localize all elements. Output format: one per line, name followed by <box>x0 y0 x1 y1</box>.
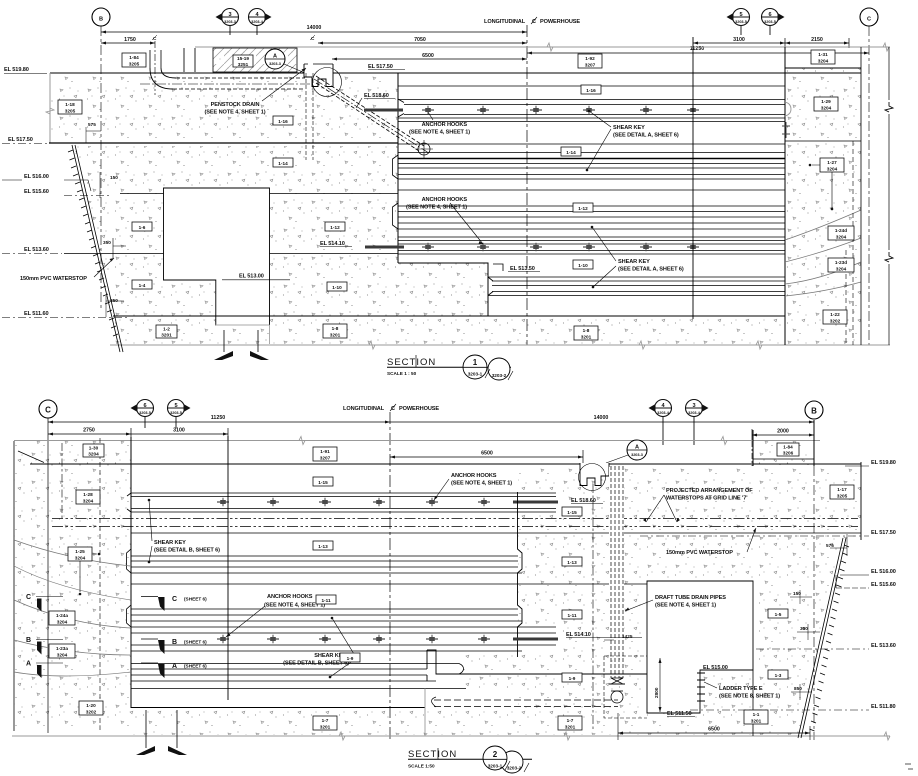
pour box 1-1/3201 <box>744 710 768 724</box>
svg-text:3203-2: 3203-2 <box>507 766 522 771</box>
svg-text:3201: 3201 <box>751 719 762 724</box>
svg-text:3204: 3204 <box>88 452 99 457</box>
detail circle around niche <box>313 68 342 97</box>
turbine pit white void <box>164 188 270 325</box>
svg-text:3201: 3201 <box>161 333 172 338</box>
svg-text:(SEE NOTE 4, SHEET 1): (SEE NOTE 4, SHEET 1) <box>205 110 266 116</box>
svg-text:1-30: 1-30 <box>89 446 99 451</box>
svg-text:5: 5 <box>739 12 742 18</box>
svg-text:1-14: 1-14 <box>278 161 288 166</box>
pour box 1-84/3206 <box>777 443 799 456</box>
pour box 1-11 center <box>316 595 336 604</box>
slab band right edge with keyways <box>518 492 523 657</box>
anchor hooks row b1 <box>217 498 229 506</box>
longitudinal centerline 2 <box>389 412 391 740</box>
grid bubble 6 <box>762 9 785 26</box>
pour box 1-13 right <box>562 557 582 566</box>
svg-text:ANCHOR HOOKS: ANCHOR HOOKS <box>267 594 313 600</box>
svg-text:EL 518.60: EL 518.60 <box>364 93 389 99</box>
section 2 bubble <box>501 751 523 773</box>
svg-text:EL 517.50: EL 517.50 <box>8 137 33 143</box>
svg-text:7050: 7050 <box>414 37 426 43</box>
pour box 1-2/3201 <box>156 325 177 338</box>
pour box 1-5 <box>768 609 788 618</box>
svg-text:3207: 3207 <box>585 63 596 68</box>
svg-text:SHEAR KEY: SHEAR KEY <box>613 125 645 131</box>
svg-text:1-92: 1-92 <box>585 56 595 61</box>
svg-text:3205: 3205 <box>65 109 76 114</box>
svg-text:350: 350 <box>103 240 111 245</box>
svg-text:(SHEET 6): (SHEET 6) <box>184 597 207 602</box>
svg-text:3205: 3205 <box>129 62 140 67</box>
joint line EL515.60 b <box>131 583 647 585</box>
svg-text:3204: 3204 <box>57 653 68 658</box>
pour box 1-22/3202 <box>823 310 847 324</box>
svg-text:SECTION: SECTION <box>408 749 457 760</box>
svg-text:EL 513.50: EL 513.50 <box>510 266 535 272</box>
slope hatch ticks 2 <box>810 545 850 731</box>
bottom 6500 dim <box>618 732 810 734</box>
svg-text:C: C <box>45 406 51 415</box>
pour box 1-30/3204 <box>83 444 104 457</box>
grid bubble 3 <box>216 9 239 26</box>
upper lift joint <box>398 85 785 87</box>
pipe end circle <box>418 143 430 155</box>
svg-text:3: 3 <box>228 12 231 18</box>
svg-text:1-6: 1-6 <box>139 225 146 230</box>
svg-text:1-23d: 1-23d <box>835 260 847 265</box>
svg-text:1-16: 1-16 <box>586 88 596 93</box>
band E lift joint lines <box>488 277 785 296</box>
dimension 11250 b <box>48 421 390 423</box>
2800 dim <box>659 658 661 712</box>
svg-text:1-13: 1-13 <box>318 544 328 549</box>
svg-text:LONGITUDINAL: LONGITUDINAL <box>484 19 526 25</box>
svg-text:A: A <box>635 445 639 451</box>
svg-text:350: 350 <box>800 626 808 631</box>
svg-text:SCALE 1:50: SCALE 1:50 <box>408 764 435 769</box>
excavation slope line <box>72 145 123 352</box>
svg-text:PENSTOCK DRAIN: PENSTOCK DRAIN <box>211 102 260 108</box>
leader A to niche <box>284 64 305 73</box>
cut mark arrows <box>214 351 233 360</box>
draft tube drain pipes dashed <box>611 466 623 678</box>
pour box 1-16 center <box>581 85 601 94</box>
svg-text:1-14: 1-14 <box>566 150 576 155</box>
svg-text:(SEE DETAIL B, SHEET 6): (SEE DETAIL B, SHEET 6) <box>154 548 220 554</box>
A row right keyway bump <box>459 664 464 675</box>
band5 joint lines A row <box>131 664 459 682</box>
svg-text:1425: 1425 <box>622 634 633 639</box>
grid bubble 3b <box>686 400 709 417</box>
concrete stipple right block <box>785 68 861 345</box>
main concrete top line EL519.60 <box>50 72 861 74</box>
grid bubble 4b <box>649 400 672 417</box>
svg-text:575: 575 <box>88 122 96 127</box>
svg-text:ANCHOR HOOKS: ANCHOR HOOKS <box>422 197 468 203</box>
svg-text:1-91: 1-91 <box>320 449 330 454</box>
svg-text:B: B <box>811 407 817 416</box>
band A lift joint lines <box>398 100 785 119</box>
right concrete stipple block <box>518 466 861 735</box>
svg-text:WATERSTOPS AT GRID LINE '7': WATERSTOPS AT GRID LINE '7' <box>666 496 748 502</box>
grid line C <box>868 26 870 345</box>
pour box 1-17/3205 <box>830 485 854 499</box>
svg-text:ANCHOR HOOKS: ANCHOR HOOKS <box>422 122 468 128</box>
svg-text:3207: 3207 <box>320 456 331 461</box>
bottom slab line 2 <box>131 707 425 709</box>
unit grid line 7 <box>592 484 594 730</box>
svg-text:SCALE 1 : 50: SCALE 1 : 50 <box>387 371 417 376</box>
svg-text:EL 519.80: EL 519.80 <box>4 67 29 73</box>
pour box 1-84/3205 <box>122 53 146 67</box>
dashed enclosure <box>604 656 647 718</box>
dimension tier1 14000 <box>101 31 527 33</box>
right block top line <box>785 67 861 69</box>
svg-text:1750: 1750 <box>124 37 136 43</box>
grid bubble B <box>92 8 110 26</box>
svg-text:1-1: 1-1 <box>753 712 760 717</box>
svg-text:14000: 14000 <box>307 25 322 31</box>
pour box 1-23d/3204 <box>828 258 854 272</box>
dimension 3100 b <box>131 433 228 435</box>
C sheet6 row <box>141 596 158 598</box>
svg-text:C: C <box>867 17 871 23</box>
svg-text:1-3: 1-3 <box>775 673 782 678</box>
band3 joint lines C row <box>131 609 522 621</box>
leader 1-25 <box>80 554 97 592</box>
stems 5/6 <box>145 417 176 429</box>
svg-text:1-24d: 1-24d <box>835 228 847 233</box>
svg-text:1-11: 1-11 <box>567 613 577 618</box>
stems 3/4 <box>663 417 694 446</box>
svg-text:3203-5: 3203-5 <box>170 411 182 415</box>
cut stems 2 <box>146 710 177 748</box>
svg-text:3204: 3204 <box>75 556 86 561</box>
pour box 1-16 left <box>273 116 293 125</box>
niche detail 2 <box>580 463 609 486</box>
joint line low <box>131 688 466 690</box>
anchor hooks row b2 <box>217 635 229 643</box>
svg-text:1-13: 1-13 <box>567 560 577 565</box>
right edge line with breaks <box>860 47 862 345</box>
lift joint EL517.50 <box>398 143 785 145</box>
svg-text:(SHEET 6): (SHEET 6) <box>184 640 207 645</box>
svg-text:EL 514.10: EL 514.10 <box>566 632 591 638</box>
bottom stipple strip <box>131 708 640 735</box>
svg-text:2: 2 <box>493 750 498 759</box>
svg-text:1-12: 1-12 <box>578 206 588 211</box>
sloped line top-left 2 <box>18 451 44 463</box>
svg-text:1-29: 1-29 <box>821 99 831 104</box>
pour box 1-10 left <box>327 282 347 291</box>
svg-text:B: B <box>26 637 31 644</box>
ground line bottom <box>110 344 890 346</box>
anchor hooks row 2 <box>422 243 434 251</box>
grid bubble 3/4 stems <box>230 26 257 36</box>
left face of concrete <box>49 73 51 143</box>
band C lift joint lines <box>398 206 785 229</box>
svg-text:575: 575 <box>826 543 834 548</box>
niche detail at unit CL <box>304 64 333 87</box>
pour box 1-9 right <box>562 673 582 682</box>
svg-text:EL 517.50: EL 517.50 <box>871 530 896 536</box>
longitudinal centerline <box>526 25 528 345</box>
lift joint EL515.60 segments <box>120 193 398 195</box>
svg-text:EL 513.00: EL 513.00 <box>239 274 264 280</box>
svg-text:1-10: 1-10 <box>332 285 342 290</box>
svg-text:3201: 3201 <box>565 725 576 730</box>
svg-text:EL 516.00: EL 516.00 <box>24 174 49 180</box>
pour box 1-14 center <box>561 147 581 156</box>
section 1 bubble <box>488 358 510 380</box>
svg-text:DRAFT TUBE DRAIN PIPES: DRAFT TUBE DRAIN PIPES <box>655 595 726 601</box>
B sheet6 row <box>141 638 158 640</box>
pedestal bottom gray <box>216 325 270 344</box>
leader A2 <box>606 455 628 463</box>
right block inner dashed lines <box>846 141 853 345</box>
svg-text:3206: 3206 <box>783 451 794 456</box>
band A edge flare <box>398 99 404 117</box>
svg-text:3203-1: 3203-1 <box>468 372 483 377</box>
pour box 1-27/3204 <box>820 158 844 172</box>
grid bubble C <box>860 8 878 26</box>
band2 joint lines <box>131 556 522 573</box>
svg-text:3204: 3204 <box>836 235 847 240</box>
grid bubble B2 <box>805 401 823 419</box>
draft tube floor <box>427 650 647 674</box>
svg-text:1-12: 1-12 <box>330 225 340 230</box>
svg-text:850: 850 <box>794 686 802 691</box>
svg-text:2000: 2000 <box>777 429 789 435</box>
svg-text:(SHEET 6): (SHEET 6) <box>184 664 207 669</box>
pour box 1-12 left <box>325 222 345 231</box>
dimension 6500 <box>332 58 527 60</box>
left concrete stipple block <box>14 441 131 731</box>
1-84 strip verticals <box>752 430 754 466</box>
svg-text:A: A <box>26 661 31 668</box>
svg-text:3203-5: 3203-5 <box>735 20 747 24</box>
svg-text:3203-5: 3203-5 <box>764 20 776 24</box>
svg-text:1-7: 1-7 <box>322 718 329 723</box>
pour box 1-9 center <box>340 653 360 662</box>
excavation slope line 2 <box>798 538 846 738</box>
slab stack left face <box>397 73 399 263</box>
svg-text:SHEAR KEY: SHEAR KEY <box>618 259 650 265</box>
svg-text:3204: 3204 <box>83 499 94 504</box>
svg-text:850: 850 <box>110 298 118 303</box>
svg-text:3203-3: 3203-3 <box>269 62 281 66</box>
left block outline top <box>13 441 15 731</box>
svg-text:3202: 3202 <box>86 710 97 715</box>
drain pipe channel white <box>609 467 624 655</box>
turbine pit outline <box>164 188 270 325</box>
penstock drain pipe vertical <box>150 50 161 68</box>
svg-text:1-20: 1-20 <box>86 703 96 708</box>
svg-text:3201: 3201 <box>330 333 341 338</box>
band4 joint lines B row <box>131 627 556 651</box>
svg-text:1-31: 1-31 <box>818 52 828 57</box>
svg-text:1-17: 1-17 <box>837 487 847 492</box>
pour box 1-20/3202 <box>79 701 103 715</box>
svg-text:SHEAR KEY: SHEAR KEY <box>154 540 186 546</box>
svg-text:1: 1 <box>473 358 478 367</box>
top slab line <box>30 463 861 465</box>
svg-text:1-25: 1-25 <box>75 549 85 554</box>
band B lift joint lines <box>398 153 785 180</box>
pour box 1-18/3205 <box>58 100 82 114</box>
band1 joint lines <box>131 493 556 512</box>
dimension 6500 b <box>390 456 583 458</box>
svg-text:1-4: 1-4 <box>139 283 146 288</box>
bottom slab line <box>113 315 785 317</box>
pour box 1-28/3204 <box>76 490 100 504</box>
svg-text:15-19: 15-19 <box>237 56 249 61</box>
svg-text:B: B <box>99 17 103 23</box>
svg-text:PROJECTED ARRANGEMENT OF: PROJECTED ARRANGEMENT OF <box>666 488 753 494</box>
svg-text:11250: 11250 <box>211 415 225 421</box>
svg-text:1-84: 1-84 <box>129 55 139 60</box>
svg-text:5: 5 <box>174 403 177 409</box>
slab band area white <box>131 466 518 708</box>
grid bubble 5/6 stems <box>741 26 770 36</box>
grid bubble 5b <box>168 400 191 417</box>
grid bubble C2 <box>39 400 57 418</box>
anchor bar b1 <box>513 501 558 504</box>
svg-text:(SEE NOTE 4, SHEET 1): (SEE NOTE 4, SHEET 1) <box>409 130 470 136</box>
label box 15-19/3251 <box>233 55 253 67</box>
pour box 1-25/3204 <box>68 547 92 561</box>
svg-text:1-24a: 1-24a <box>56 613 68 618</box>
A sheet6 row <box>141 662 158 664</box>
joint below band A <box>398 121 785 123</box>
svg-text:2750: 2750 <box>83 428 95 434</box>
svg-text:1-22: 1-22 <box>830 312 840 317</box>
dimension 2000 <box>752 434 814 436</box>
ground surface line top 2 <box>14 440 820 442</box>
slope hatch ticks <box>68 150 118 336</box>
keyway bump right wall <box>785 102 791 116</box>
svg-text:1-10: 1-10 <box>578 263 588 268</box>
dimension 2750 <box>48 433 131 435</box>
joint line EL517.50 b <box>131 532 861 534</box>
detail circle 2 <box>579 464 606 491</box>
svg-text:3100: 3100 <box>733 37 745 43</box>
concrete stipple left lower block <box>74 146 488 316</box>
svg-text:1-28: 1-28 <box>83 492 93 497</box>
svg-text:3203-3: 3203-3 <box>631 453 643 457</box>
pour box 1-7/3201 center <box>313 716 337 730</box>
pour box 1-12 center <box>573 203 593 212</box>
svg-text:3203-4: 3203-4 <box>657 411 670 415</box>
svg-text:SECTION: SECTION <box>387 357 436 368</box>
dimension 11250 <box>527 52 869 54</box>
anchor bar row 2 <box>365 246 404 249</box>
svg-text:3: 3 <box>692 403 695 409</box>
pour box 1-15 right <box>562 507 582 516</box>
svg-text:3203-1: 3203-1 <box>488 764 503 769</box>
svg-text:1-27: 1-27 <box>827 160 837 165</box>
svg-text:1-16: 1-16 <box>278 119 288 124</box>
svg-text:EL 515.00: EL 515.00 <box>703 665 728 671</box>
svg-text:EL 515.60: EL 515.60 <box>24 189 49 195</box>
svg-text:3203-3: 3203-3 <box>224 20 236 24</box>
svg-text:3205: 3205 <box>837 494 848 499</box>
leader 1-27 <box>812 165 832 208</box>
svg-text:LONGITUDINAL: LONGITUDINAL <box>343 406 385 412</box>
pour box 1-6 <box>132 222 152 231</box>
pour box 1-10 center <box>573 260 593 269</box>
svg-text:1-23a: 1-23a <box>56 646 68 651</box>
svg-text:C: C <box>26 594 31 601</box>
svg-text:EL 513.60: EL 513.60 <box>871 643 896 649</box>
svg-text:6500: 6500 <box>708 727 720 733</box>
svg-text:A: A <box>172 663 177 670</box>
grid bubble 6b <box>131 400 154 417</box>
draft tube outline <box>647 581 753 713</box>
svg-text:POWERHOUSE: POWERHOUSE <box>399 406 439 412</box>
svg-text:3204: 3204 <box>821 106 832 111</box>
rock contour lines left block <box>14 540 131 676</box>
svg-text:EL 518.60: EL 518.60 <box>571 498 596 504</box>
dimension 3100 <box>693 42 785 44</box>
concrete stipple left upper block <box>50 73 398 143</box>
pour box 1-24a/3204 <box>49 611 75 625</box>
svg-text:POWERHOUSE: POWERHOUSE <box>540 19 580 25</box>
dashed projected outline left <box>61 443 63 518</box>
pour box 1-7/3201 right <box>558 716 582 730</box>
joint line <box>398 189 785 191</box>
svg-text:1-7: 1-7 <box>567 718 574 723</box>
svg-text:3203-4: 3203-4 <box>251 20 264 24</box>
svg-text:EL 511.80: EL 511.80 <box>871 704 896 710</box>
svg-text:150mm PVC WATERSTOP: 150mm PVC WATERSTOP <box>666 550 733 556</box>
svg-text:EL 516.00: EL 516.00 <box>871 569 896 575</box>
svg-text:(SEE NOTE 4, SHEET 1): (SEE NOTE 4, SHEET 1) <box>655 603 716 609</box>
EL 513.50 ledge step <box>398 263 488 316</box>
pour box 1-91/3207 <box>313 447 337 461</box>
penstock drain leader <box>262 68 306 101</box>
svg-text:1-15: 1-15 <box>318 480 328 485</box>
svg-text:3100: 3100 <box>173 428 185 434</box>
svg-text:3201: 3201 <box>581 335 592 340</box>
svg-text:6500: 6500 <box>422 53 434 59</box>
grid bubble 5 <box>727 9 750 26</box>
sloped penstock drain pipe <box>316 76 424 151</box>
svg-text:1-9: 1-9 <box>347 656 354 661</box>
svg-text:1-8: 1-8 <box>332 326 339 331</box>
pour box 1-15 center <box>313 477 333 486</box>
svg-text:EL 519.80: EL 519.80 <box>871 460 896 466</box>
svg-text:EL 511.60: EL 511.60 <box>24 311 49 317</box>
svg-text:EL 511.50: EL 511.50 <box>667 711 692 717</box>
anchor bar row 1 <box>364 109 403 112</box>
drain continuation dashes <box>306 73 313 160</box>
band D lift joint lines <box>398 237 785 254</box>
svg-text:(SEE DETAIL A, SHEET 6): (SEE DETAIL A, SHEET 6) <box>618 267 684 273</box>
svg-text:1-11: 1-11 <box>321 598 331 603</box>
pipe fittings <box>611 678 623 684</box>
detail bubble A 3203-3 <box>265 49 285 69</box>
svg-text:3203-4: 3203-4 <box>688 411 701 415</box>
svg-text:3201: 3201 <box>320 725 331 730</box>
slab stack left face 2 <box>130 437 132 708</box>
svg-text:6500: 6500 <box>481 451 493 457</box>
svg-text:C: C <box>172 596 177 603</box>
detail bubble A2 <box>627 440 647 460</box>
grid bubble 4 <box>249 9 272 26</box>
ground surface line top <box>195 46 890 48</box>
